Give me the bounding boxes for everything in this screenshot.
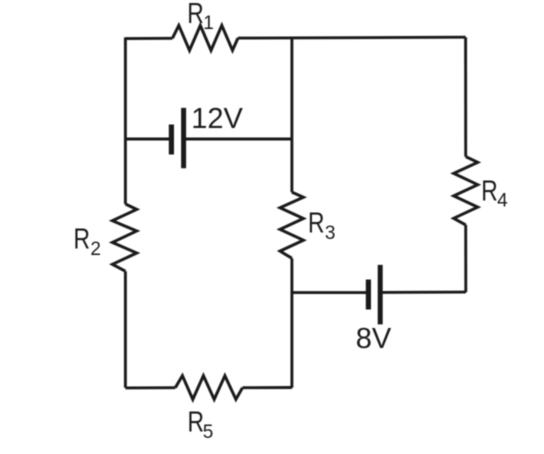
wire: top rail left segment bbox=[125, 37, 172, 40]
wire: bottom rail left segment bbox=[125, 386, 175, 389]
wire: right rail upper bbox=[464, 37, 467, 156]
wire: right rail lower bbox=[464, 225, 467, 292]
label R2 bbox=[74, 224, 101, 260]
svg-text:R: R bbox=[308, 208, 325, 240]
wire: 8V branch right bbox=[382, 291, 466, 294]
wire: middle rail upper bbox=[290, 38, 293, 139]
label 12V bbox=[191, 103, 243, 135]
svg-text:R: R bbox=[188, 406, 205, 438]
svg-text:R: R bbox=[74, 224, 91, 256]
svg-text:R: R bbox=[481, 175, 498, 207]
wire: left rail lower bbox=[124, 271, 127, 388]
wire: middle rail mid bbox=[290, 139, 293, 192]
resistor R4 bbox=[454, 157, 478, 225]
wire: middle rail lower bbox=[290, 258, 293, 388]
svg-text:12V: 12V bbox=[191, 103, 243, 135]
wire: 12V branch right bbox=[186, 138, 292, 141]
label R4 bbox=[481, 175, 508, 211]
svg-text:1: 1 bbox=[203, 13, 214, 34]
label 8V bbox=[356, 323, 392, 355]
label R5 bbox=[188, 406, 214, 443]
resistor R1 bbox=[172, 25, 238, 50]
battery 8V bbox=[368, 265, 380, 325]
wire: 12V branch left bbox=[125, 138, 169, 141]
svg-text:5: 5 bbox=[203, 422, 214, 443]
wire: bottom rail right segment bbox=[243, 386, 292, 389]
resistor R5 bbox=[175, 376, 242, 400]
wire: top rail right segment bbox=[238, 36, 466, 40]
svg-text:3: 3 bbox=[325, 223, 336, 244]
wire: 8V branch left bbox=[292, 291, 366, 294]
wire: left rail upper bbox=[124, 37, 127, 204]
svg-text:8V: 8V bbox=[356, 323, 392, 355]
svg-text:2: 2 bbox=[90, 239, 101, 260]
label R3 bbox=[308, 208, 335, 245]
svg-text:4: 4 bbox=[497, 191, 508, 212]
resistor R2 bbox=[112, 204, 136, 271]
battery 12V bbox=[171, 108, 183, 168]
resistor R3 bbox=[280, 192, 303, 258]
label R1 bbox=[187, 0, 214, 34]
svg-text:R: R bbox=[187, 0, 204, 30]
